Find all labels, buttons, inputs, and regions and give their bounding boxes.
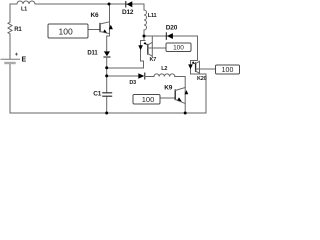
svg-text:L11: L11	[148, 13, 157, 19]
svg-text:D3: D3	[129, 80, 136, 86]
svg-text:C1: C1	[93, 91, 101, 98]
svg-text:K6: K6	[91, 12, 99, 19]
svg-text:100: 100	[222, 67, 234, 74]
svg-text:100: 100	[142, 95, 155, 104]
svg-text:D11: D11	[87, 51, 98, 57]
svg-text:100: 100	[59, 27, 73, 37]
svg-text:L1: L1	[21, 7, 27, 13]
svg-text:L2: L2	[161, 66, 167, 72]
svg-text:D20: D20	[166, 24, 178, 31]
svg-text:D12: D12	[122, 9, 134, 16]
svg-text:K9: K9	[164, 85, 172, 92]
svg-text:K7: K7	[150, 57, 157, 63]
svg-text:100: 100	[173, 45, 184, 52]
svg-text:E: E	[22, 57, 27, 64]
svg-text:K20: K20	[197, 76, 207, 82]
svg-text:R1: R1	[14, 27, 22, 33]
